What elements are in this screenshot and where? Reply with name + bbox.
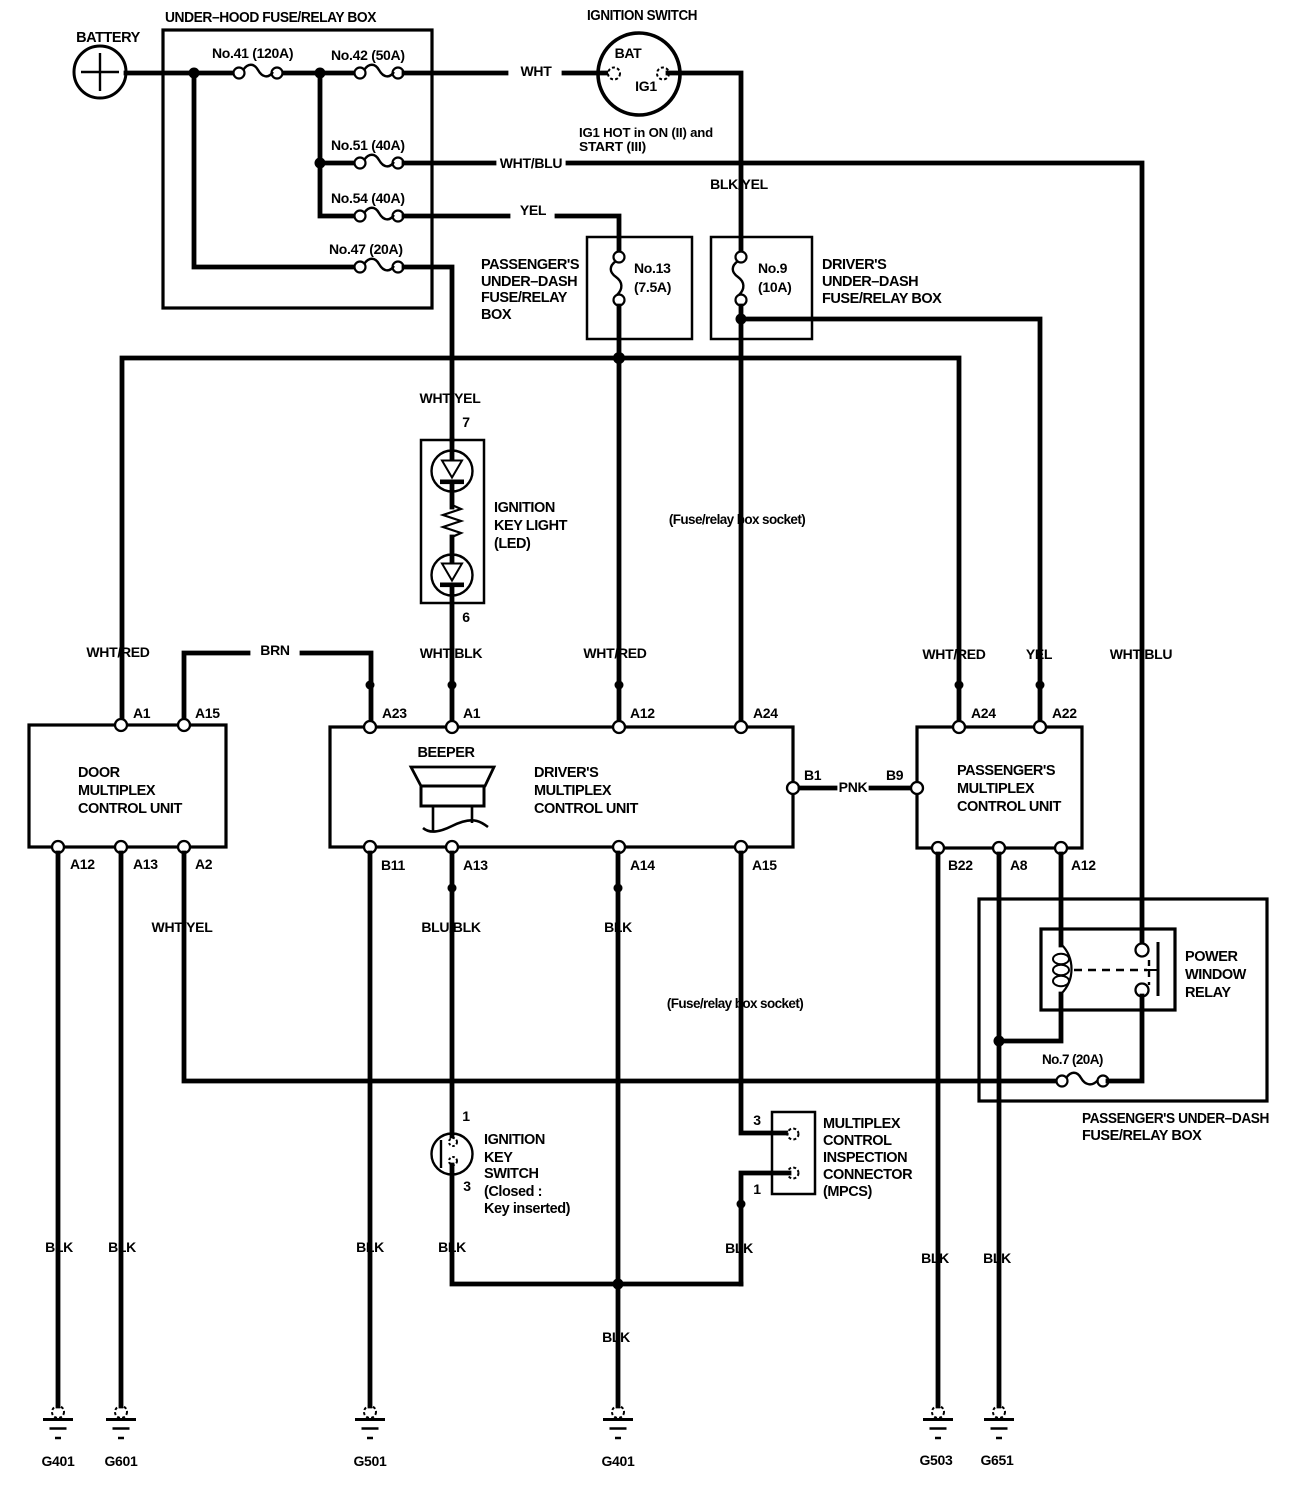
svg-text:No.41 (120A): No.41 (120A) xyxy=(212,45,293,61)
fuse No.9 (10A) box xyxy=(711,237,812,339)
ground G503 xyxy=(919,1406,953,1468)
driver's under-dash fuse/relay box label xyxy=(822,257,942,307)
svg-text:Key inserted): Key inserted) xyxy=(484,1201,571,1217)
svg-text:IG1: IG1 xyxy=(635,78,657,94)
svg-text:No.51 (40A): No.51 (40A) xyxy=(331,137,405,153)
svg-text:BLK: BLK xyxy=(725,1240,753,1256)
power window relay xyxy=(1041,929,1247,1010)
terminal A24 passenger xyxy=(953,721,965,733)
svg-text:KEY: KEY xyxy=(484,1150,513,1166)
terminal A22 passenger xyxy=(1034,721,1046,733)
svg-text:WHT/RED: WHT/RED xyxy=(86,644,149,660)
wire PNK B1 to B9 xyxy=(800,786,835,791)
svg-text:CONTROL: CONTROL xyxy=(823,1133,892,1149)
splice dot WHT/RED passenger xyxy=(955,681,964,690)
svg-text:YEL: YEL xyxy=(1026,646,1053,662)
svg-text:(MPCS): (MPCS) xyxy=(823,1184,872,1200)
svg-text:IGNITION: IGNITION xyxy=(484,1132,545,1148)
svg-text:DRIVER'S: DRIVER'S xyxy=(822,257,887,273)
svg-text:MULTIPLEX: MULTIPLEX xyxy=(957,781,1035,797)
terminal A1 driver xyxy=(446,721,458,733)
wire A8 passenger down to ground G651 xyxy=(997,854,1002,1406)
svg-text:CONTROL UNIT: CONTROL UNIT xyxy=(957,799,1061,815)
ignition key switch xyxy=(432,1108,571,1217)
relay coil xyxy=(1061,944,1072,994)
ground G601 xyxy=(104,1406,138,1469)
svg-text:BEEPER: BEEPER xyxy=(418,745,476,761)
terminal A15 door xyxy=(178,719,190,731)
svg-text:A22: A22 xyxy=(1052,705,1077,721)
wire BLK key switch to ground rail xyxy=(452,1165,741,1284)
svg-text:G401: G401 xyxy=(41,1453,75,1469)
passenger's multiplex control unit xyxy=(917,727,1082,848)
svg-text:3: 3 xyxy=(463,1178,471,1194)
ignition switch xyxy=(579,8,713,154)
wire WHT/YEL door A2 down and right to fuse No.7 xyxy=(184,853,1057,1081)
terminal B22 passenger xyxy=(932,842,944,854)
wire YEL to fuse No.13 xyxy=(404,214,508,219)
relay contact bar xyxy=(1157,942,1160,996)
svg-text:No.13: No.13 xyxy=(634,260,671,276)
svg-text:WHT/BLK: WHT/BLK xyxy=(420,645,483,661)
svg-text:1: 1 xyxy=(462,1108,470,1124)
svg-text:No.47 (20A): No.47 (20A) xyxy=(329,241,403,257)
svg-text:B9: B9 xyxy=(886,767,904,783)
fuse No.47 (20A) xyxy=(329,241,404,273)
svg-text:SWITCH: SWITCH xyxy=(484,1166,539,1182)
svg-text:3: 3 xyxy=(753,1112,761,1128)
terminal A13 door xyxy=(115,841,127,853)
svg-text:KEY LIGHT: KEY LIGHT xyxy=(494,518,568,534)
passenger's under-dash fuse/relay box (relay) xyxy=(979,899,1267,1101)
LED D1 xyxy=(432,451,473,492)
svg-text:A1: A1 xyxy=(463,705,481,721)
terminal A15 driver xyxy=(735,841,747,853)
svg-text:BATTERY: BATTERY xyxy=(76,30,140,46)
svg-text:MULTIPLEX: MULTIPLEX xyxy=(534,783,612,799)
fuse No.42 (50A) xyxy=(331,47,405,79)
fuse No.51 (40A) xyxy=(331,137,405,169)
svg-text:G601: G601 xyxy=(104,1453,138,1469)
terminal B9 passenger xyxy=(911,782,923,794)
ground G401 (key switch) xyxy=(601,1406,635,1469)
svg-text:BLK: BLK xyxy=(921,1250,949,1266)
svg-text:(Fuse/relay box socket): (Fuse/relay box socket) xyxy=(667,996,803,1011)
svg-text:7: 7 xyxy=(462,414,470,430)
relay contact upper xyxy=(1136,944,1149,957)
svg-text:No.54 (40A): No.54 (40A) xyxy=(331,190,405,206)
wire BLK driver B11 to ground G501 xyxy=(368,853,373,1406)
fuse No.7 (20A) xyxy=(1042,1052,1109,1087)
svg-text:A12: A12 xyxy=(1071,857,1096,873)
wire B22 passenger down to ground G503 xyxy=(936,854,941,1406)
svg-text:G651: G651 xyxy=(980,1452,1014,1468)
multiplex control inspection connector (MPCS) xyxy=(753,1112,913,1200)
svg-text:MULTIPLEX: MULTIPLEX xyxy=(823,1116,901,1132)
terminal B1 driver xyxy=(787,782,799,794)
svg-text:G503: G503 xyxy=(919,1452,953,1468)
svg-text:WHT/RED: WHT/RED xyxy=(922,646,985,662)
svg-text:A15: A15 xyxy=(195,705,220,721)
terminal A12 passenger xyxy=(1055,842,1067,854)
svg-text:BOX: BOX xyxy=(481,307,512,323)
svg-text:YEL: YEL xyxy=(520,202,547,218)
relay actuation dashes xyxy=(1074,969,1147,971)
svg-text:MULTIPLEX: MULTIPLEX xyxy=(78,783,156,799)
wire fuse No.7 to relay lower contact xyxy=(1108,996,1142,1081)
svg-text:BLK: BLK xyxy=(604,919,632,935)
terminal A2 door xyxy=(178,841,190,853)
svg-text:6: 6 xyxy=(462,609,470,625)
passenger's under-dash fuse/relay box label xyxy=(481,257,580,323)
under-hood fuse/relay box xyxy=(163,30,432,308)
svg-text:A12: A12 xyxy=(70,856,95,872)
junction node (fuse 42/51/54 feed) xyxy=(315,68,326,79)
splice dot BRN xyxy=(366,681,375,690)
svg-text:PASSENGER'S UNDER–DASH: PASSENGER'S UNDER–DASH xyxy=(1082,1111,1269,1127)
wire BLK/YEL from IG1 down to No.9 fuse xyxy=(668,73,741,252)
terminal A8 passenger xyxy=(993,842,1005,854)
wire from No.13 down to main WHT/RED rail xyxy=(617,306,622,358)
svg-text:CONTROL UNIT: CONTROL UNIT xyxy=(78,801,182,817)
svg-text:No.7 (20A): No.7 (20A) xyxy=(1042,1052,1103,1067)
svg-text:PNK: PNK xyxy=(839,779,868,795)
svg-text:FUSE/RELAY BOX: FUSE/RELAY BOX xyxy=(1082,1128,1202,1144)
svg-text:PASSENGER'S: PASSENGER'S xyxy=(481,257,580,273)
svg-text:BLK: BLK xyxy=(108,1239,136,1255)
svg-text:B22: B22 xyxy=(948,857,973,873)
LED D2 xyxy=(450,537,455,564)
svg-text:DOOR: DOOR xyxy=(78,765,121,781)
svg-text:G501: G501 xyxy=(353,1453,387,1469)
wire BLK door A13 to ground G601 xyxy=(119,853,124,1406)
svg-text:BLK: BLK xyxy=(356,1239,384,1255)
splice dot WHT/RED driver xyxy=(615,681,624,690)
splice dot YEL xyxy=(1036,681,1045,690)
wire BLU/BLK driver A13 to ignition key switch xyxy=(450,853,455,1138)
svg-text:BLU/BLK: BLU/BLK xyxy=(421,919,481,935)
svg-text:CONTROL UNIT: CONTROL UNIT xyxy=(534,801,638,817)
wire MPCS pin 1 to ground rail xyxy=(741,1173,789,1284)
svg-text:POWER: POWER xyxy=(1185,949,1239,965)
svg-text:No.42 (50A): No.42 (50A) xyxy=(331,47,405,63)
svg-text:BRN: BRN xyxy=(260,642,290,658)
fuse No.41 (120A) xyxy=(212,45,353,79)
splice dot WHT/BLK xyxy=(448,681,457,690)
wire battery feed down to fuse No.47 row xyxy=(194,73,354,267)
svg-text:A23: A23 xyxy=(382,705,407,721)
junction node No.9 output xyxy=(736,314,747,325)
driver's multiplex control unit xyxy=(330,727,793,847)
svg-text:BLK: BLK xyxy=(983,1250,1011,1266)
wire BLK driver A14 to ground G401 xyxy=(616,853,621,1406)
svg-text:BLK: BLK xyxy=(45,1239,73,1255)
wire WHT/BLU long run to right then down xyxy=(404,161,494,166)
svg-text:A24: A24 xyxy=(971,705,996,721)
wire WHT/RED from rail down to driver A12 xyxy=(617,358,622,727)
battery xyxy=(74,30,141,98)
wire BLK/YEL No.9 output down to A24 driver's unit xyxy=(739,306,744,727)
svg-text:WHT/RED: WHT/RED xyxy=(583,645,646,661)
svg-text:WHT/BLU: WHT/BLU xyxy=(500,155,563,171)
junction node rail / No.13 xyxy=(613,352,625,364)
terminal A23 driver xyxy=(364,721,376,733)
svg-text:RELAY: RELAY xyxy=(1185,985,1231,1001)
svg-text:A24: A24 xyxy=(753,705,778,721)
wire A12 passenger to relay coil xyxy=(1059,854,1064,945)
svg-text:DRIVER'S: DRIVER'S xyxy=(534,765,599,781)
main WHT/RED rail xyxy=(122,358,959,727)
svg-text:No.9: No.9 xyxy=(758,260,788,276)
svg-text:WHT: WHT xyxy=(521,63,553,79)
wire BRN door A15 to driver A23 xyxy=(184,653,248,727)
svg-text:(LED): (LED) xyxy=(494,536,531,552)
junction node (battery feed) xyxy=(189,68,200,79)
svg-text:(Closed :: (Closed : xyxy=(484,1184,542,1200)
svg-text:PASSENGER'S: PASSENGER'S xyxy=(957,763,1056,779)
wire down to No.51 / No.54 rows xyxy=(320,73,354,216)
svg-text:FUSE/RELAY: FUSE/RELAY xyxy=(481,290,568,306)
relay contact lower xyxy=(1136,984,1149,997)
svg-text:WHT/BLU: WHT/BLU xyxy=(1110,646,1173,662)
svg-text:(10A): (10A) xyxy=(758,279,792,295)
svg-text:UNDER–HOOD FUSE/RELAY BOX: UNDER–HOOD FUSE/RELAY BOX xyxy=(165,10,377,26)
svg-text:BLK/YEL: BLK/YEL xyxy=(710,176,769,192)
wire WHT to ignition switch xyxy=(404,71,506,76)
svg-text:1: 1 xyxy=(753,1181,761,1197)
beeper xyxy=(411,745,494,832)
svg-text:A13: A13 xyxy=(133,856,158,872)
terminal A1 door xyxy=(115,719,127,731)
svg-text:A13: A13 xyxy=(463,857,488,873)
junction node coil/A8 xyxy=(994,1036,1005,1047)
svg-text:B11: B11 xyxy=(381,857,406,873)
wire battery to under-hood fuse/relay box xyxy=(126,71,234,76)
terminal A14 driver xyxy=(613,841,625,853)
terminal A12 driver xyxy=(613,721,625,733)
fuse No.13 (7.5A) box xyxy=(587,237,692,339)
svg-text:BLK: BLK xyxy=(438,1239,466,1255)
svg-text:A1: A1 xyxy=(133,705,151,721)
junction node ground rail xyxy=(613,1279,624,1290)
svg-text:FUSE/RELAY BOX: FUSE/RELAY BOX xyxy=(822,291,942,307)
svg-text:WHT/YEL: WHT/YEL xyxy=(152,919,214,935)
door multiplex control unit xyxy=(29,725,226,847)
terminal B11 driver xyxy=(364,841,376,853)
svg-text:WHT/YEL: WHT/YEL xyxy=(420,390,482,406)
svg-text:UNDER–DASH: UNDER–DASH xyxy=(822,274,918,290)
svg-text:START (III): START (III) xyxy=(579,139,646,154)
wire coil to A8 line xyxy=(999,994,1061,1041)
ground G501 xyxy=(353,1406,387,1469)
svg-text:WINDOW: WINDOW xyxy=(1185,967,1247,983)
wire WHT/BLK LED to driver A1 xyxy=(450,585,455,727)
svg-text:B1: B1 xyxy=(804,767,822,783)
ground G401 (door A12) xyxy=(41,1406,75,1469)
svg-text:IGNITION SWITCH: IGNITION SWITCH xyxy=(587,8,697,24)
ground G651 xyxy=(980,1406,1014,1468)
svg-text:A12: A12 xyxy=(630,705,655,721)
svg-text:CONNECTOR: CONNECTOR xyxy=(823,1167,913,1183)
resistor xyxy=(443,505,461,537)
svg-text:A2: A2 xyxy=(195,856,213,872)
wire driver A15 to MPCS pin 3 xyxy=(741,853,789,1133)
ignition key light (LED) xyxy=(420,390,568,625)
svg-text:(7.5A): (7.5A) xyxy=(634,279,671,295)
wire BLK door A12 to ground G401 xyxy=(56,853,61,1406)
svg-text:UNDER–DASH: UNDER–DASH xyxy=(481,274,577,290)
terminal A13 driver xyxy=(446,841,458,853)
svg-text:IGNITION: IGNITION xyxy=(494,500,555,516)
svg-text:G401: G401 xyxy=(601,1453,635,1469)
svg-text:BLK: BLK xyxy=(602,1329,630,1345)
wire WHT/YEL from No.47 down to ignition key light xyxy=(404,267,452,440)
fuse No.54 (40A) xyxy=(331,190,405,222)
svg-text:A14: A14 xyxy=(630,857,655,873)
svg-text:INSPECTION: INSPECTION xyxy=(823,1150,907,1166)
svg-text:IG1 HOT in ON (II) and: IG1 HOT in ON (II) and xyxy=(579,125,713,140)
wire YEL branch to A22 passenger's unit xyxy=(741,319,1040,727)
terminal A24 driver xyxy=(735,721,747,733)
svg-text:A15: A15 xyxy=(752,857,777,873)
svg-text:(Fuse/relay box socket): (Fuse/relay box socket) xyxy=(669,512,805,527)
svg-text:A8: A8 xyxy=(1010,857,1028,873)
svg-text:BAT: BAT xyxy=(615,45,643,61)
terminal A12 door xyxy=(52,841,64,853)
